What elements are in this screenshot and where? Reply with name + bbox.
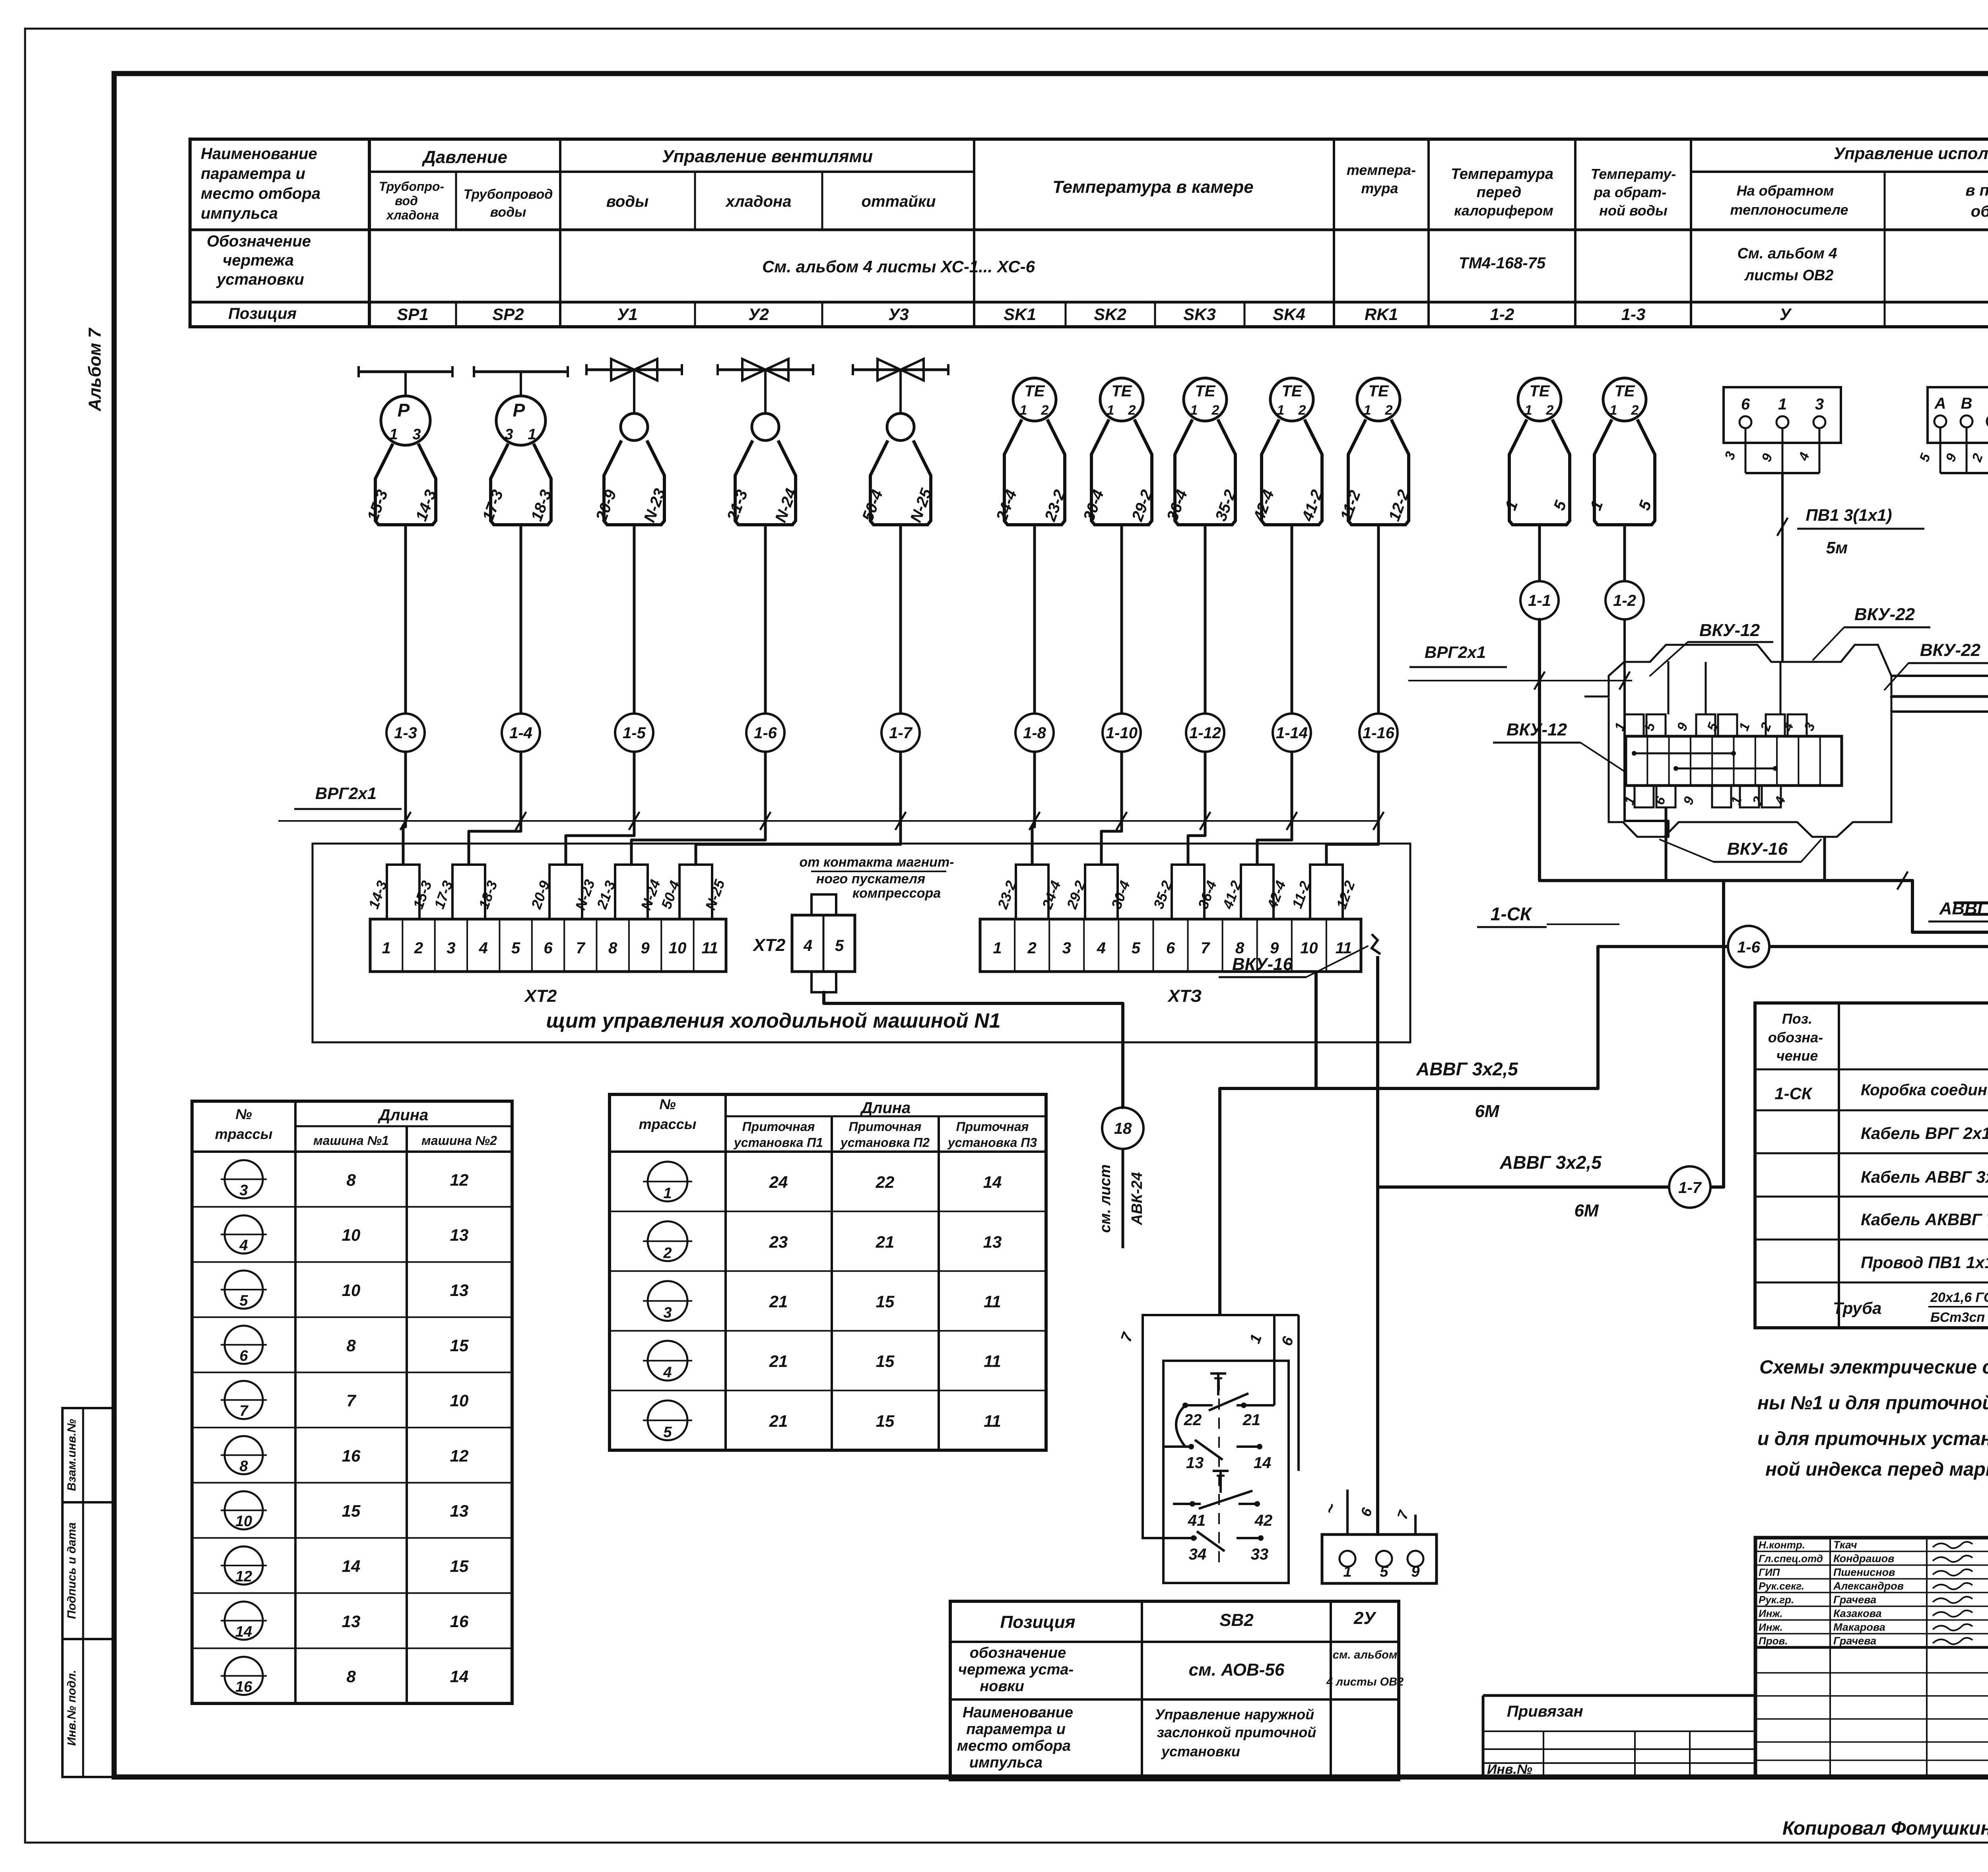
SB2 inner box bbox=[1163, 1361, 1289, 1583]
svg-text:ВКУ-12: ВКУ-12 bbox=[1507, 720, 1567, 739]
svg-text:установка П1: установка П1 bbox=[733, 1135, 823, 1150]
svg-text:6: 6 bbox=[239, 1348, 248, 1364]
svg-text:23: 23 bbox=[769, 1232, 788, 1251]
svg-text:21: 21 bbox=[876, 1232, 895, 1251]
svg-text:3: 3 bbox=[505, 426, 513, 443]
svg-text:Рук.секг.: Рук.секг. bbox=[1759, 1580, 1804, 1592]
svg-text:34: 34 bbox=[1189, 1546, 1207, 1563]
svg-text:На обратном: На обратном bbox=[1737, 182, 1834, 199]
svg-text:7: 7 bbox=[1201, 939, 1210, 957]
SB2 inner feed wire bbox=[1273, 1315, 1276, 1405]
svg-text:Приточная: Приточная bbox=[956, 1119, 1029, 1134]
wire 1-2 sensor drop bbox=[1623, 525, 1626, 581]
svg-text:1: 1 bbox=[389, 426, 398, 443]
svg-text:11: 11 bbox=[984, 1292, 1001, 1311]
svg-text:Позиция: Позиция bbox=[1000, 1612, 1075, 1632]
svg-text:15: 15 bbox=[450, 1336, 469, 1355]
svg-text:Длина: Длина bbox=[378, 1106, 429, 1124]
svg-text:21: 21 bbox=[769, 1412, 788, 1430]
svg-text:см. лист: см. лист bbox=[1097, 1164, 1114, 1233]
svg-text:Кабель АКВВГ 7х2,5 ГОСТ 15: Кабель АКВВГ 7х2,5 ГОСТ 1508 - 78 bbox=[1861, 1210, 1988, 1229]
table trace lengths machines bbox=[192, 1101, 512, 1703]
svg-text:оттайки: оттайки bbox=[862, 193, 936, 210]
svg-text:1-3: 1-3 bbox=[394, 724, 417, 742]
svg-text:6: 6 bbox=[1166, 939, 1175, 957]
wire 1-16 sensor drop bbox=[1377, 525, 1380, 714]
trace row 14 bbox=[225, 1602, 263, 1640]
svg-text:2: 2 bbox=[1631, 403, 1639, 418]
svg-text:Температура в камере: Температура в камере bbox=[1052, 177, 1253, 197]
svg-text:Приточная: Приточная bbox=[849, 1119, 922, 1134]
svg-text:темпера-: темпера- bbox=[1347, 162, 1416, 178]
trace circle 1-12 bbox=[1186, 714, 1224, 752]
svg-text:24: 24 bbox=[769, 1173, 788, 1191]
svg-text:16: 16 bbox=[235, 1679, 252, 1695]
svg-text:Ткач: Ткач bbox=[1833, 1539, 1857, 1551]
svg-text:16: 16 bbox=[450, 1612, 469, 1631]
svg-text:У1: У1 bbox=[617, 305, 638, 324]
svg-text:5: 5 bbox=[663, 1424, 672, 1441]
svg-text:ТЕ: ТЕ bbox=[1614, 382, 1635, 400]
SB2 dashed center line bbox=[1218, 1379, 1220, 1566]
svg-text:Длина: Длина bbox=[860, 1099, 911, 1117]
pressure sensor SP1 with labels 15-3/14-3 bbox=[359, 371, 452, 373]
svg-text:10: 10 bbox=[342, 1281, 361, 1300]
svg-text:ного пускателя: ного пускателя bbox=[816, 871, 925, 887]
svg-text:8: 8 bbox=[346, 1336, 356, 1355]
svg-text:ВКУ-16: ВКУ-16 bbox=[1232, 954, 1293, 974]
title block main area lines bbox=[1755, 1646, 1988, 1649]
svg-text:1-3: 1-3 bbox=[1621, 305, 1646, 324]
trace circle 18 bbox=[1102, 1108, 1143, 1149]
svg-text:1-2: 1-2 bbox=[1613, 592, 1636, 609]
svg-text:ТЕ: ТЕ bbox=[1111, 382, 1132, 400]
svg-text:1: 1 bbox=[1277, 403, 1285, 418]
svg-text:RK1: RK1 bbox=[1365, 305, 1398, 324]
svg-text:тура: тура bbox=[1361, 180, 1398, 196]
pritochnaya trace row 4 bbox=[648, 1341, 687, 1381]
left margin cells: Vzam inv no bbox=[62, 1408, 114, 1502]
pritochnaya trace row 2 bbox=[648, 1221, 687, 1261]
cabinet enclosure shchit upravleniya bbox=[313, 844, 1410, 1042]
svg-text:1-1: 1-1 bbox=[1528, 592, 1551, 609]
svg-text:Привязан: Привязан bbox=[1507, 1703, 1583, 1720]
svg-text:импульса: импульса bbox=[201, 205, 278, 222]
svg-text:Грачева: Грачева bbox=[1833, 1635, 1876, 1647]
svg-text:чертежа: чертежа bbox=[223, 252, 294, 269]
trace row 5 bbox=[225, 1271, 263, 1309]
svg-text:Пров.: Пров. bbox=[1759, 1635, 1788, 1647]
wire 1-2 drop bbox=[1625, 619, 1668, 837]
terminal tag 17-3/18-3 bbox=[452, 865, 485, 919]
svg-text:установка П2: установка П2 bbox=[840, 1135, 930, 1150]
svg-text:14: 14 bbox=[1254, 1454, 1272, 1472]
svg-text:4: 4 bbox=[1097, 939, 1106, 957]
valve sensor У1 with labels 20-9/N-23 bbox=[586, 369, 682, 371]
connector block 6-1-3 bbox=[1724, 387, 1841, 443]
svg-text:Р: Р bbox=[398, 400, 410, 421]
svg-text:трассы: трассы bbox=[215, 1126, 273, 1142]
svg-text:Инв.№ подл.: Инв.№ подл. bbox=[65, 1670, 78, 1746]
svg-text:8: 8 bbox=[346, 1667, 356, 1686]
svg-text:1: 1 bbox=[528, 426, 536, 443]
svg-text:3: 3 bbox=[239, 1182, 248, 1199]
svg-text:ТЕ: ТЕ bbox=[1368, 382, 1389, 400]
svg-text:ра обрат-: ра обрат- bbox=[1594, 184, 1666, 200]
svg-text:Пшениснов: Пшениснов bbox=[1833, 1566, 1895, 1578]
trace circle 1-6 bbox=[1728, 926, 1769, 967]
trace circle 1-1 bbox=[1520, 581, 1559, 619]
trace row 6 bbox=[225, 1326, 263, 1364]
wire 1-3 sensor drop bbox=[404, 525, 407, 714]
svg-text:13: 13 bbox=[342, 1612, 361, 1631]
table SB2 2U position bbox=[950, 1601, 1399, 1780]
terminal tag 23-2/24-4 bbox=[1016, 865, 1048, 919]
svg-text:Макарова: Макарова bbox=[1833, 1621, 1885, 1633]
terminal tag 50-4/N-25 bbox=[679, 865, 712, 919]
svg-text:1: 1 bbox=[1778, 396, 1787, 413]
terminal strip ХТ2 bbox=[370, 919, 726, 972]
svg-text:7: 7 bbox=[239, 1403, 248, 1420]
svg-text:см. альбом: см. альбом bbox=[1333, 1649, 1398, 1661]
svg-text:42: 42 bbox=[1254, 1512, 1273, 1529]
svg-text:АВВГ 3х2,5: АВВГ 3х2,5 bbox=[1939, 899, 1988, 918]
svg-text:15: 15 bbox=[342, 1501, 361, 1520]
svg-text:1: 1 bbox=[1610, 403, 1617, 418]
svg-text:см. АОВ-56: см. АОВ-56 bbox=[1189, 1660, 1285, 1680]
svg-text:13: 13 bbox=[1186, 1454, 1204, 1472]
SB2 contact 41-42 bbox=[1219, 1471, 1222, 1493]
svg-text:1-14: 1-14 bbox=[1276, 724, 1308, 742]
cable PV1 3(1x1) 5m bbox=[1781, 473, 1784, 661]
svg-text:ны №1 и для приточной устано: ны №1 и для приточной установки П1. Для … bbox=[1757, 1393, 1988, 1414]
svg-text:в помещении для вентиляционног: в помещении для вентиляционного bbox=[1965, 182, 1988, 199]
svg-text:Позиция: Позиция bbox=[228, 305, 297, 322]
1-SK upper tags bbox=[1625, 714, 1644, 736]
svg-text:2У: 2У bbox=[1353, 1608, 1376, 1628]
svg-text:ВКУ-16: ВКУ-16 bbox=[1727, 839, 1788, 859]
svg-text:14: 14 bbox=[450, 1667, 469, 1686]
svg-text:10: 10 bbox=[669, 939, 687, 957]
left margin cells: Inv no podl bbox=[62, 1639, 114, 1777]
svg-text:Наименование: Наименование bbox=[963, 1704, 1073, 1721]
wire from circle 1-16 to XT3 tag bbox=[1326, 752, 1378, 865]
svg-text:установка П3: установка П3 bbox=[947, 1135, 1037, 1150]
svg-text:15: 15 bbox=[876, 1412, 895, 1430]
svg-text:21: 21 bbox=[1242, 1411, 1261, 1429]
svg-text:БСт3сп ГОСТ10705-80: БСт3сп ГОСТ10705-80 bbox=[1930, 1310, 1988, 1325]
svg-text:установки: установки bbox=[1161, 1743, 1240, 1759]
svg-text:41: 41 bbox=[1188, 1512, 1206, 1529]
valve sensor У2 with labels 21-3/N-24 bbox=[718, 369, 813, 371]
svg-text:16: 16 bbox=[342, 1446, 361, 1465]
valve sensor У3 with labels 50-4/N-25 bbox=[853, 369, 948, 371]
svg-text:14: 14 bbox=[235, 1624, 252, 1640]
svg-text:А: А bbox=[1934, 395, 1946, 412]
svg-text:1: 1 bbox=[1525, 403, 1532, 418]
svg-text:10: 10 bbox=[450, 1391, 469, 1410]
wire XT3 to 1-6 net bbox=[1314, 972, 1318, 1088]
trace row 8 bbox=[225, 1436, 263, 1474]
svg-text:20х1,6 ГОСТ 10704-76: 20х1,6 ГОСТ 10704-76 bbox=[1930, 1290, 1988, 1305]
feeder tag6 to W1 bbox=[1665, 807, 1668, 881]
svg-text:11: 11 bbox=[984, 1412, 1001, 1430]
svg-text:1: 1 bbox=[1020, 403, 1027, 418]
svg-text:4: 4 bbox=[239, 1237, 248, 1254]
svg-text:Провод ПВ1 1х1 ГОСТ 6323: Провод ПВ1 1х1 ГОСТ 6323 - 79 bbox=[1861, 1253, 1988, 1272]
svg-text:Трубопро-: Трубопро- bbox=[379, 179, 444, 194]
trace circle 1-4 bbox=[502, 714, 540, 752]
svg-text:6: 6 bbox=[544, 939, 553, 957]
terminal tag 29-2/30-4 bbox=[1085, 865, 1118, 919]
wire 1-6 sensor drop bbox=[764, 525, 767, 714]
svg-text:калорифером: калорифером bbox=[1454, 202, 1553, 219]
terminal tag 20-9/N-23 bbox=[549, 865, 582, 919]
wire from circle 1-5 to XT2 tag bbox=[566, 752, 634, 865]
svg-text:2: 2 bbox=[1298, 403, 1306, 418]
svg-text:1: 1 bbox=[1364, 403, 1371, 418]
svg-text:4: 4 bbox=[663, 1364, 672, 1381]
svg-text:Температу-: Температу- bbox=[1591, 166, 1676, 182]
wire from circle 1-3 to XT2 tag bbox=[403, 752, 406, 865]
svg-text:ТЕ: ТЕ bbox=[1024, 382, 1045, 400]
left margin cells: Podpis i data bbox=[62, 1502, 114, 1639]
terminal box 2Y 1-5-9 bbox=[1322, 1534, 1437, 1583]
wires 1-4 1-5 down bbox=[1955, 788, 1988, 903]
svg-text:8: 8 bbox=[239, 1458, 248, 1474]
svg-text:2: 2 bbox=[1128, 403, 1136, 418]
svg-text:ХТ2: ХТ2 bbox=[752, 935, 786, 955]
svg-text:ВРГ2х1: ВРГ2х1 bbox=[315, 784, 377, 803]
TE sensor SK1 with labels 24-4/23-2 bbox=[1013, 378, 1056, 421]
svg-text:Грачева: Грачева bbox=[1833, 1594, 1876, 1606]
TE sensor RK1 with labels 11-2/12-2 bbox=[1357, 378, 1400, 421]
svg-text:2: 2 bbox=[1385, 403, 1393, 418]
svg-text:Коробка соединительная КС-10: Коробка соединительная КС-10 ТУ36.2568-8… bbox=[1861, 1081, 1988, 1099]
svg-text:5: 5 bbox=[511, 939, 520, 957]
svg-text:12: 12 bbox=[235, 1568, 252, 1585]
terminal strip ХТЗ bbox=[980, 919, 1361, 972]
svg-text:2: 2 bbox=[1211, 403, 1219, 418]
svg-text:15: 15 bbox=[876, 1352, 895, 1371]
svg-text:7: 7 bbox=[576, 939, 586, 957]
svg-text:машина №2: машина №2 bbox=[421, 1133, 497, 1148]
terminal tag 41-2/42-4 bbox=[1241, 865, 1274, 919]
svg-text:ной воды: ной воды bbox=[1599, 202, 1668, 219]
svg-text:7: 7 bbox=[346, 1391, 356, 1410]
wire from circle 1-14 to XT3 tag bbox=[1257, 752, 1292, 865]
svg-text:параметра и: параметра и bbox=[201, 165, 305, 182]
svg-text:См. альбом 4: См. альбом 4 bbox=[1737, 245, 1837, 262]
svg-text:21: 21 bbox=[769, 1352, 788, 1371]
svg-text:22: 22 bbox=[1184, 1411, 1202, 1429]
svg-text:Инж.: Инж. bbox=[1759, 1621, 1783, 1633]
svg-text:Кабель АВВГ 3х2,5 0,66 ГОСТ 1: Кабель АВВГ 3х2,5 0,66 ГОСТ 16442- 80 bbox=[1861, 1168, 1988, 1186]
svg-text:воды: воды bbox=[606, 193, 648, 210]
trace circle 1-10 bbox=[1103, 714, 1141, 752]
svg-text:2: 2 bbox=[414, 939, 423, 957]
reference sm.list AVK-24 bbox=[1122, 1149, 1124, 1248]
svg-text:Поз.: Поз. bbox=[1782, 1011, 1812, 1027]
svg-text:5: 5 bbox=[1380, 1564, 1388, 1580]
svg-text:ТМ4-168-75: ТМ4-168-75 bbox=[1459, 254, 1546, 272]
svg-text:параметра и: параметра и bbox=[966, 1721, 1066, 1738]
svg-text:Подпись и дата: Подпись и дата bbox=[65, 1522, 78, 1619]
svg-text:2: 2 bbox=[1546, 403, 1554, 418]
svg-text:2: 2 bbox=[1027, 939, 1037, 957]
trace row 3 bbox=[225, 1160, 263, 1198]
svg-text:SB2: SB2 bbox=[1219, 1610, 1254, 1630]
svg-text:ТЕ: ТЕ bbox=[1281, 382, 1302, 400]
svg-text:SK1: SK1 bbox=[1004, 305, 1036, 324]
svg-text:13: 13 bbox=[450, 1501, 469, 1520]
svg-text:1: 1 bbox=[993, 939, 1002, 957]
svg-text:Кондрашов: Кондрашов bbox=[1833, 1553, 1894, 1565]
trace circle 1-2 bbox=[1606, 581, 1644, 619]
svg-text:4: 4 bbox=[803, 937, 812, 954]
signature table lower rows bbox=[1754, 1647, 1757, 1777]
TE sensor TE-2 with labels 1/5 bbox=[1603, 378, 1646, 421]
trace circle 1-8 bbox=[1015, 714, 1054, 752]
trace circle 1-5 bbox=[615, 714, 653, 752]
svg-text:2: 2 bbox=[663, 1245, 672, 1261]
svg-text:ВКУ-22: ВКУ-22 bbox=[1854, 605, 1915, 624]
svg-text:Инв.№: Инв.№ bbox=[1487, 1762, 1532, 1777]
svg-text:10: 10 bbox=[235, 1513, 252, 1530]
svg-text:обозна-: обозна- bbox=[1768, 1029, 1823, 1046]
svg-text:листы ОВ2: листы ОВ2 bbox=[1744, 267, 1834, 284]
svg-text:и для приточных установок: и для приточных установок П2,П3 схемы ан… bbox=[1757, 1428, 1988, 1449]
stamp outline thick bbox=[1755, 1538, 1988, 1777]
top parameter table grid bbox=[190, 139, 1988, 327]
svg-text:1-2: 1-2 bbox=[1490, 305, 1514, 324]
svg-text:Альбом 7: Альбом 7 bbox=[85, 327, 105, 411]
svg-text:Кабель ВРГ 2х1- 0,66 ГОСТ 4: Кабель ВРГ 2х1- 0,66 ГОСТ 433- 73 bbox=[1861, 1124, 1988, 1143]
wire from circle 1-6 to XT2 tag bbox=[631, 752, 765, 865]
svg-text:Управление вентилями: Управление вентилями bbox=[662, 147, 873, 166]
svg-text:Управление наружной: Управление наружной bbox=[1155, 1706, 1314, 1723]
SB2 outer box bbox=[1143, 1315, 1299, 1538]
svg-text:9: 9 bbox=[1411, 1564, 1419, 1580]
svg-text:АВВГ 3х2,5: АВВГ 3х2,5 bbox=[1416, 1059, 1518, 1079]
svg-text:1: 1 bbox=[1343, 1564, 1351, 1580]
svg-text:Обозначение: Обозначение bbox=[207, 233, 311, 250]
svg-text:6М: 6М bbox=[1574, 1201, 1599, 1220]
wire from circle 1-12 to XT3 tag bbox=[1188, 752, 1205, 865]
svg-text:SK4: SK4 bbox=[1273, 305, 1305, 324]
trace circle 1-3 bbox=[386, 714, 425, 752]
trace circle 1-7 bbox=[881, 714, 920, 752]
svg-text:машина №1: машина №1 bbox=[313, 1133, 389, 1148]
svg-text:1-6: 1-6 bbox=[1737, 939, 1761, 956]
svg-text:ной индекса перед маркировк: ной индекса перед маркировкой трасс. bbox=[1765, 1459, 1988, 1480]
svg-text:№: № bbox=[235, 1106, 252, 1122]
wire from circle 1-4 to XT2 tag bbox=[469, 752, 521, 865]
svg-text:6: 6 bbox=[1741, 396, 1750, 413]
svg-text:10: 10 bbox=[1300, 939, 1318, 957]
svg-text:Гл.спец.отд: Гл.спец.отд bbox=[1759, 1553, 1823, 1565]
svg-text:В: В bbox=[1961, 395, 1972, 412]
wires 1-4 1-5 up bbox=[1891, 676, 1988, 750]
svg-text:Казакова: Казакова bbox=[1833, 1608, 1882, 1620]
wire 1-7 sensor drop bbox=[899, 525, 902, 714]
svg-text:установки: установки bbox=[216, 271, 304, 288]
svg-text:12: 12 bbox=[450, 1170, 469, 1189]
svg-text:хладона: хладона bbox=[386, 208, 439, 222]
svg-text:перед: перед bbox=[1477, 184, 1522, 201]
trace row 7 bbox=[225, 1381, 263, 1419]
svg-text:4: 4 bbox=[479, 939, 488, 957]
wire from circle 1-8 to XT3 tag bbox=[1032, 752, 1035, 865]
table trace lengths pritochnye bbox=[610, 1094, 1046, 1450]
pressure sensor SP2 with labels 17-3/18-3 bbox=[474, 371, 568, 373]
SB2 contact 22-21 bbox=[1217, 1373, 1219, 1395]
TE sensor SK4 with labels 42-4/41-2 bbox=[1270, 378, 1313, 421]
terminal tag 35-2/36-4 bbox=[1172, 865, 1204, 919]
svg-text:3: 3 bbox=[1062, 939, 1071, 957]
svg-text:место отбора: место отбора bbox=[201, 185, 320, 202]
svg-text:5м: 5м bbox=[1826, 538, 1848, 557]
svg-text:место отбора: место отбора bbox=[957, 1738, 1071, 1754]
svg-text:ВКУ-22: ВКУ-22 bbox=[1920, 640, 1981, 660]
svg-text:3: 3 bbox=[412, 426, 421, 443]
svg-text:щит управления холодильной: щит управления холодильной машиной N1 bbox=[546, 1009, 1000, 1032]
wire 1-4 sensor drop bbox=[520, 525, 522, 714]
svg-text:22: 22 bbox=[876, 1173, 895, 1191]
wire net 1-7 bbox=[1378, 881, 1724, 1534]
svg-text:Наименование: Наименование bbox=[201, 145, 317, 163]
svg-text:1-5: 1-5 bbox=[623, 724, 646, 742]
svg-text:компрессора: компрессора bbox=[852, 886, 941, 901]
terminal tag 11-2/12-2 bbox=[1310, 865, 1343, 919]
connector block A-B-1-2-5-6-7-8 bbox=[1928, 387, 1988, 443]
SB2 contact 34-33 bbox=[1163, 1537, 1197, 1539]
svg-text:15: 15 bbox=[876, 1292, 895, 1311]
svg-text:Инж.: Инж. bbox=[1759, 1608, 1783, 1620]
svg-text:1-7: 1-7 bbox=[889, 724, 913, 742]
svg-text:теплоносителе: теплоносителе bbox=[1730, 202, 1848, 218]
svg-text:Управление исполнительным: Управление исполнительным механизмом кла… bbox=[1834, 144, 1988, 163]
svg-text:ХТ2: ХТ2 bbox=[524, 986, 557, 1006]
svg-text:10: 10 bbox=[342, 1226, 361, 1244]
svg-text:обозначение: обозначение bbox=[970, 1645, 1066, 1661]
trace circle 1-14 bbox=[1273, 714, 1311, 752]
svg-text:Труба: Труба bbox=[1833, 1299, 1881, 1317]
svg-text:воды: воды bbox=[490, 205, 526, 220]
wire 1-1 sensor drop bbox=[1538, 525, 1541, 581]
materials list table bbox=[1755, 1003, 1988, 1328]
wire from aux terminal to circle 18 bbox=[824, 992, 1123, 1108]
terminal tag 14-3/15-3 bbox=[387, 865, 419, 919]
wire from circle 1-10 to XT3 tag bbox=[1101, 752, 1122, 865]
svg-text:4 листы ОВ2: 4 листы ОВ2 bbox=[1326, 1676, 1404, 1688]
title block signature table bbox=[1755, 1538, 1988, 1647]
SB2 contact 13-14 bbox=[1163, 1445, 1193, 1448]
svg-text:8: 8 bbox=[608, 939, 617, 957]
svg-text:хладона: хладона bbox=[725, 193, 792, 210]
svg-text:Рук.гр.: Рук.гр. bbox=[1759, 1594, 1794, 1606]
title left small grid bbox=[1483, 1730, 1755, 1732]
svg-text:5: 5 bbox=[1132, 939, 1141, 957]
svg-text:3: 3 bbox=[1815, 396, 1824, 413]
svg-text:2: 2 bbox=[1041, 403, 1049, 418]
svg-text:3: 3 bbox=[447, 939, 455, 957]
svg-text:33: 33 bbox=[1251, 1546, 1269, 1563]
svg-text:18: 18 bbox=[1114, 1120, 1132, 1137]
svg-text:SP2: SP2 bbox=[492, 305, 524, 324]
svg-text:14: 14 bbox=[983, 1173, 1002, 1191]
svg-text:1-СК: 1-СК bbox=[1491, 904, 1532, 924]
